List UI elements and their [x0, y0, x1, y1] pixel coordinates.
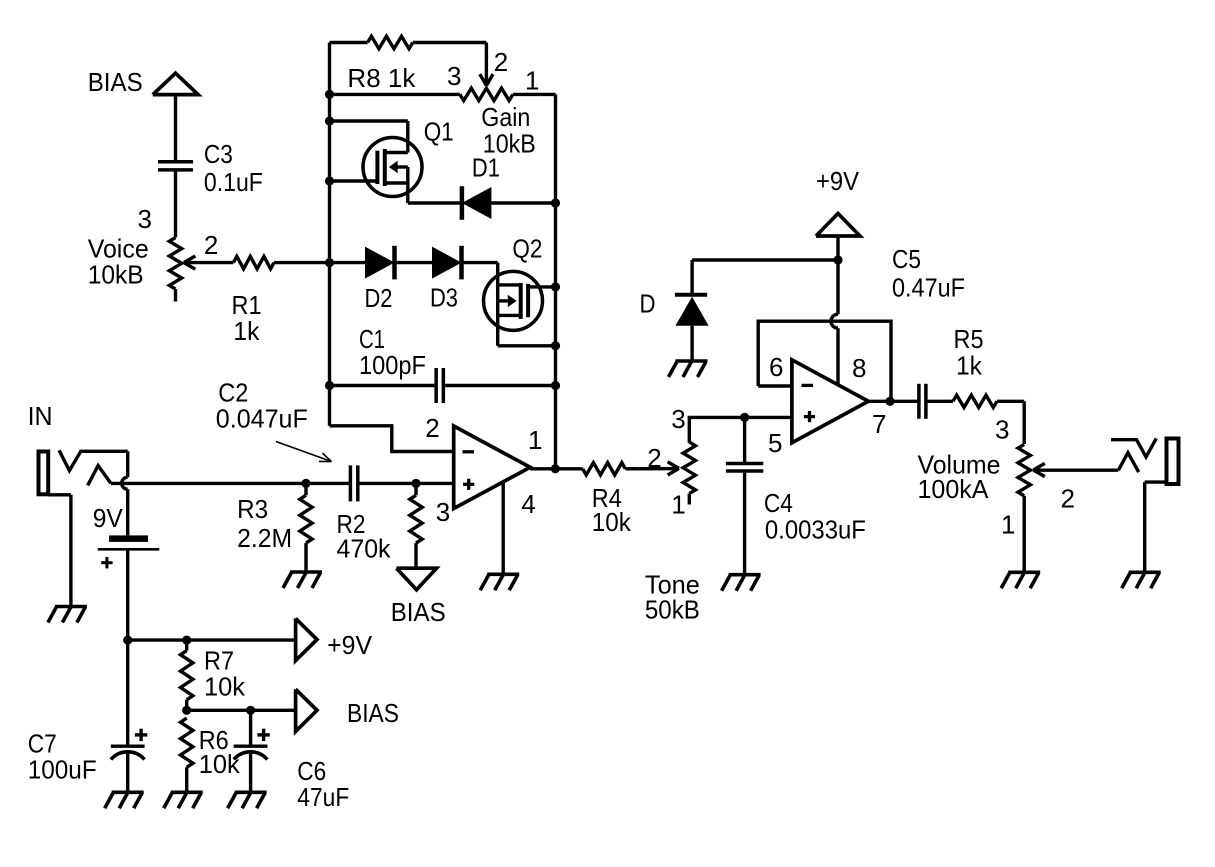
- svg-text:0.1uF: 0.1uF: [204, 167, 263, 197]
- svg-text:D1: D1: [472, 153, 500, 183]
- svg-text:2: 2: [1061, 484, 1075, 514]
- svg-text:D3: D3: [430, 283, 458, 313]
- svg-text:1: 1: [671, 489, 685, 519]
- svg-text:D2: D2: [365, 283, 393, 313]
- svg-text:3: 3: [995, 415, 1009, 445]
- svg-text:2: 2: [204, 230, 218, 260]
- svg-text:470k: 470k: [337, 534, 392, 564]
- svg-text:2.2M: 2.2M: [237, 523, 292, 553]
- svg-text:Q2: Q2: [512, 234, 542, 264]
- svg-text:10kB: 10kB: [88, 260, 144, 290]
- svg-text:10k: 10k: [592, 507, 632, 537]
- svg-text:IN: IN: [28, 401, 53, 431]
- svg-text:Gain: Gain: [481, 102, 530, 132]
- svg-text:BIAS: BIAS: [347, 698, 399, 728]
- svg-text:100kA: 100kA: [918, 474, 990, 504]
- svg-text:100uF: 100uF: [28, 754, 97, 784]
- svg-text:1: 1: [525, 66, 539, 96]
- svg-text:2: 2: [494, 47, 508, 77]
- svg-text:2: 2: [425, 413, 439, 443]
- svg-text:1: 1: [1001, 510, 1015, 540]
- svg-text:5: 5: [768, 428, 782, 458]
- svg-text:3: 3: [671, 404, 685, 434]
- svg-text:0.0033uF: 0.0033uF: [765, 515, 866, 545]
- svg-text:47uF: 47uF: [297, 782, 349, 812]
- svg-text:10k: 10k: [204, 671, 246, 701]
- svg-text:3: 3: [138, 204, 152, 234]
- svg-text:10k: 10k: [199, 749, 241, 779]
- svg-text:R3: R3: [237, 494, 268, 524]
- svg-text:C3: C3: [204, 139, 233, 169]
- svg-text:+9V: +9V: [327, 630, 373, 660]
- svg-text:D: D: [640, 289, 656, 319]
- svg-text:2: 2: [647, 443, 661, 473]
- svg-text:9V: 9V: [93, 503, 124, 533]
- svg-text:0.47uF: 0.47uF: [892, 273, 965, 303]
- svg-text:8: 8: [852, 353, 866, 383]
- svg-text:7: 7: [872, 409, 886, 439]
- svg-text:C5: C5: [892, 244, 921, 274]
- svg-text:R8 1k: R8 1k: [347, 63, 416, 93]
- svg-text:3: 3: [447, 61, 461, 91]
- svg-text:BIAS: BIAS: [88, 67, 143, 97]
- svg-text:BIAS: BIAS: [391, 597, 446, 627]
- svg-text:Q1: Q1: [424, 117, 454, 147]
- svg-text:1k: 1k: [956, 351, 983, 381]
- svg-text:6: 6: [769, 352, 783, 382]
- svg-text:4: 4: [521, 489, 535, 519]
- svg-text:1k: 1k: [233, 316, 260, 346]
- svg-text:+9V: +9V: [816, 166, 860, 196]
- svg-text:50kB: 50kB: [645, 595, 700, 625]
- svg-text:0.047uF: 0.047uF: [216, 404, 308, 434]
- svg-text:3: 3: [436, 497, 450, 527]
- svg-text:C4: C4: [764, 488, 793, 518]
- svg-text:100pF: 100pF: [359, 350, 426, 380]
- svg-text:1: 1: [528, 425, 542, 455]
- svg-text:R5: R5: [954, 324, 984, 354]
